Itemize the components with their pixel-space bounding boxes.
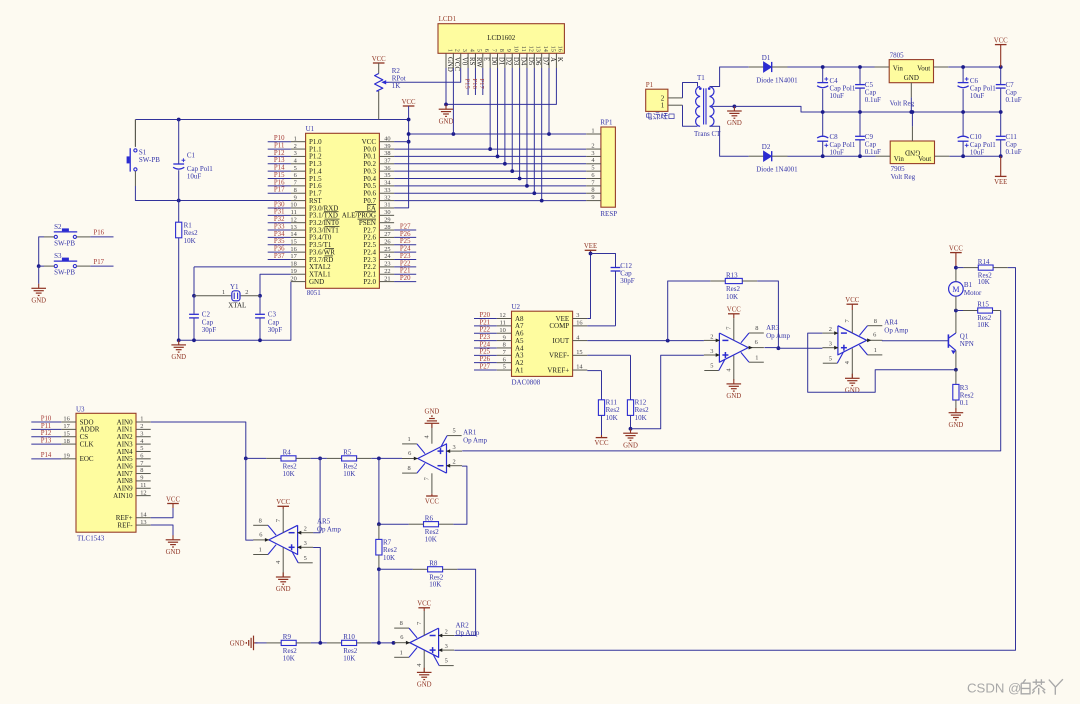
wire op-amp V- (851, 348, 853, 378)
svg-text:P16: P16 (274, 179, 285, 186)
svg-text:2: 2 (304, 526, 307, 533)
svg-text:30: 30 (384, 209, 390, 216)
capacitor C2 (189, 296, 216, 341)
svg-text:5: 5 (445, 658, 448, 665)
junction (777, 346, 781, 350)
svg-text:SW-PB: SW-PB (139, 156, 160, 164)
ground (431, 423, 433, 428)
capacitor C3 (255, 296, 282, 341)
svg-text:A1: A1 (515, 366, 524, 374)
svg-text:8: 8 (400, 620, 403, 627)
wire AR4 out to Q1 base (882, 340, 949, 342)
junction (177, 199, 181, 203)
op-amp AR1 (402, 428, 462, 481)
wire node P36 (268, 251, 291, 253)
junction (589, 252, 593, 256)
svg-text:6: 6 (294, 172, 297, 179)
wire AR2 +in (long wire already drawn) (0, 0, 1, 1)
svg-text:P16: P16 (471, 79, 478, 90)
svg-text:6: 6 (873, 332, 876, 339)
svg-text:2: 2 (829, 326, 832, 333)
svg-text:3: 3 (461, 49, 468, 52)
wire node P22 (474, 332, 497, 334)
wire node P15 (268, 178, 291, 180)
svg-text:P22: P22 (400, 260, 411, 267)
svg-text:8: 8 (755, 325, 758, 332)
svg-text:9: 9 (591, 194, 594, 201)
svg-text:10K: 10K (977, 321, 989, 329)
svg-text:1: 1 (222, 289, 225, 296)
junction (909, 110, 913, 114)
svg-text:10K: 10K (343, 470, 355, 478)
junction (821, 110, 825, 114)
IC U2 DAC0808 (497, 303, 588, 386)
svg-text:GND: GND (845, 388, 860, 395)
junction (258, 294, 262, 298)
wire LCD D4 to P0.4 (519, 68, 521, 179)
junction (452, 132, 456, 136)
junction (532, 191, 536, 195)
svg-text:37: 37 (384, 157, 391, 164)
svg-text:P12: P12 (41, 430, 52, 437)
svg-text:R4: R4 (283, 449, 292, 457)
svg-text:19: 19 (290, 268, 296, 275)
svg-text:D4: D4 (519, 57, 526, 66)
svg-text:27: 27 (384, 231, 391, 238)
svg-text:8: 8 (503, 342, 506, 349)
svg-text:30pF: 30pF (620, 277, 635, 285)
power VEE (1000, 156, 1002, 176)
wire node P26 (394, 236, 416, 238)
svg-text:VCC: VCC (276, 499, 290, 506)
junction (377, 522, 381, 526)
junction (999, 65, 1003, 69)
svg-text:5: 5 (710, 363, 713, 370)
svg-text:Op Amp: Op Amp (463, 436, 487, 444)
svg-text:P34: P34 (274, 231, 285, 238)
svg-text:GND: GND (166, 549, 181, 556)
wire LCD D3 to P0.3 (511, 68, 513, 171)
svg-text:12: 12 (499, 312, 505, 319)
junction (318, 641, 322, 645)
capacitor C9 (855, 112, 881, 156)
svg-text:8: 8 (259, 517, 262, 524)
wire vertical node chain (378, 458, 380, 524)
svg-text:Op Amp: Op Amp (884, 326, 908, 334)
wire P0.3 to RP1 (394, 170, 586, 172)
svg-text:VCC: VCC (453, 57, 460, 71)
wire node P35 (268, 244, 291, 246)
svg-text:2: 2 (710, 333, 713, 340)
svg-text:8: 8 (498, 49, 505, 52)
svg-text:XTAL: XTAL (228, 302, 246, 310)
wire AR5 out to node A (246, 458, 254, 540)
svg-text:39: 39 (384, 143, 390, 150)
svg-text:0.1uF: 0.1uF (1006, 96, 1022, 104)
wire node P11 (31, 428, 61, 430)
svg-text:1: 1 (755, 354, 758, 361)
svg-text:D2: D2 (505, 57, 512, 66)
svg-text:14: 14 (576, 364, 583, 371)
connector P1 (646, 81, 683, 111)
wire LCD D1 to P0.1 (497, 68, 499, 156)
svg-text:11: 11 (500, 320, 506, 327)
svg-text:GND: GND (726, 393, 741, 400)
svg-text:10K: 10K (283, 654, 295, 662)
wire node P24 (474, 347, 497, 349)
svg-text:10K: 10K (635, 414, 647, 422)
svg-text:P31: P31 (274, 209, 285, 216)
capacitor C4 (817, 67, 856, 112)
svg-text:0.1uF: 0.1uF (865, 148, 881, 156)
svg-text:13: 13 (535, 46, 542, 52)
svg-text:3: 3 (591, 150, 594, 157)
wire C12 to COMP (587, 325, 615, 327)
svg-text:32: 32 (384, 194, 390, 201)
wire node P11 (268, 148, 291, 150)
wire node P16 (268, 185, 291, 187)
wire (948, 66, 1001, 68)
svg-text:Trans CT: Trans CT (694, 130, 721, 138)
svg-text:13: 13 (290, 224, 296, 231)
wire node chain to R9/R10 row (378, 569, 380, 643)
svg-text:0.1: 0.1 (960, 399, 969, 407)
wire (371, 642, 394, 644)
wire node P22 (394, 266, 416, 268)
wire node P20 (394, 281, 416, 283)
svg-text:11: 11 (140, 482, 146, 489)
junction (858, 65, 862, 69)
svg-text:3: 3 (304, 540, 307, 547)
svg-text:GND: GND (623, 442, 638, 449)
svg-text:3: 3 (445, 643, 448, 650)
capacitor C10 (958, 112, 997, 156)
capacitor C5 (855, 67, 881, 112)
ground (423, 668, 425, 673)
svg-text:10: 10 (290, 202, 296, 209)
svg-text:EOC: EOC (80, 455, 94, 463)
svg-text:RS: RS (468, 57, 475, 66)
svg-text:Y1: Y1 (230, 283, 239, 291)
wire node P12 (31, 436, 61, 438)
svg-text:15: 15 (549, 46, 556, 52)
svg-text:12: 12 (290, 216, 296, 223)
wire LCD GND pin1 (445, 68, 447, 104)
wire P0.0 to RP1 (394, 148, 586, 150)
svg-text:GND: GND (309, 278, 324, 286)
svg-text:R10: R10 (343, 633, 355, 641)
ground (630, 429, 632, 434)
power VCC (728, 313, 740, 315)
wire S2 left (44, 236, 54, 238)
svg-text:R15: R15 (977, 301, 989, 309)
resistor R5 (311, 449, 372, 478)
svg-text:10K: 10K (283, 470, 295, 478)
junction (258, 338, 262, 342)
label P1 Chinese name (647, 113, 675, 120)
svg-text:24: 24 (384, 253, 391, 260)
wire node P13 (31, 443, 61, 445)
junction (629, 427, 633, 431)
svg-text:16: 16 (557, 46, 564, 52)
junction (392, 641, 396, 645)
svg-text:10uF: 10uF (970, 92, 985, 100)
junction (318, 457, 322, 461)
power VCC (373, 62, 385, 64)
capacitor C11 (996, 112, 1022, 156)
svg-text:R13: R13 (726, 271, 738, 279)
svg-text:0.1uF: 0.1uF (1006, 148, 1022, 156)
ground up at AR1 (431, 423, 433, 443)
svg-text:S3: S3 (54, 252, 62, 260)
svg-text:1: 1 (661, 102, 665, 110)
wire R8 to AR2 -in (454, 569, 475, 635)
ground at AR5 (282, 547, 284, 577)
svg-text:17: 17 (63, 423, 70, 430)
svg-text:P25: P25 (400, 238, 411, 245)
wire REF- to ground (151, 525, 173, 540)
op-amp AR4 (822, 318, 882, 365)
svg-text:AR2: AR2 (456, 621, 470, 629)
junction (525, 184, 529, 188)
svg-text:10K: 10K (343, 654, 355, 662)
switch S3 (54, 252, 77, 277)
diode D2 1N4001 (749, 143, 798, 173)
svg-text:1: 1 (874, 347, 877, 354)
svg-text:1: 1 (259, 547, 262, 554)
power VCC (403, 105, 415, 107)
svg-text:CSDN @: CSDN @ (967, 681, 1021, 696)
wire (255, 642, 267, 644)
wire node P32 (268, 222, 291, 224)
power VCC (418, 607, 430, 609)
wire node P21 (474, 325, 497, 327)
ground (955, 408, 957, 413)
resistor R12 (587, 355, 649, 429)
ground (851, 374, 853, 379)
svg-text:6: 6 (503, 356, 506, 363)
svg-text:8: 8 (140, 467, 143, 474)
svg-text:P16: P16 (94, 230, 105, 237)
IC U1 8051 (290, 125, 394, 297)
svg-text:10K: 10K (383, 554, 395, 562)
svg-text:SW-PB: SW-PB (54, 239, 75, 247)
svg-text:R9: R9 (283, 633, 292, 641)
svg-text:14: 14 (140, 511, 147, 518)
wire node P25 (394, 244, 416, 246)
svg-text:11: 11 (520, 46, 527, 52)
wire GND pin 20 net (179, 282, 291, 341)
wire AR3 out to AR4 +in (778, 347, 822, 349)
svg-text:5: 5 (294, 165, 297, 172)
svg-text:RP1: RP1 (600, 119, 613, 127)
capacitor C7 (996, 67, 1022, 112)
junction (999, 110, 1003, 114)
switch S1 (127, 120, 161, 172)
svg-text:6: 6 (140, 453, 143, 460)
resistor R8 (379, 560, 457, 589)
svg-text:34: 34 (384, 180, 391, 187)
svg-text:1: 1 (446, 49, 453, 52)
svg-text:P10: P10 (274, 135, 285, 142)
junction (444, 103, 448, 107)
junction (954, 266, 958, 270)
svg-text:3: 3 (710, 348, 713, 355)
svg-text:LCD1602: LCD1602 (487, 34, 516, 42)
svg-text:P20: P20 (480, 312, 491, 319)
svg-text:VCC: VCC (402, 99, 416, 106)
svg-text:40: 40 (384, 135, 390, 142)
svg-text:8: 8 (874, 318, 877, 325)
resistor R10 (327, 633, 371, 662)
svg-text:1: 1 (400, 649, 403, 656)
svg-text:26: 26 (384, 238, 390, 245)
svg-text:P23: P23 (400, 253, 411, 260)
svg-text:Vout: Vout (917, 65, 930, 73)
svg-text:R5: R5 (343, 449, 352, 457)
power VCC (167, 503, 179, 505)
capacitor C6 (958, 67, 997, 112)
wire AR1 -in to R6 (453, 466, 467, 524)
svg-text:P12: P12 (274, 150, 285, 157)
svg-text:GND: GND (727, 120, 742, 127)
svg-text:Res2: Res2 (184, 229, 199, 237)
op-amp AR2 (394, 620, 454, 667)
junction (192, 294, 196, 298)
svg-text:CLK: CLK (80, 440, 94, 448)
wire node P14 (31, 458, 61, 460)
svg-text:P13: P13 (274, 157, 285, 164)
junction (177, 338, 181, 342)
svg-text:2: 2 (140, 423, 143, 430)
svg-text:8: 8 (591, 187, 594, 194)
svg-text:30pF: 30pF (268, 326, 283, 334)
junction (407, 132, 411, 136)
junction (244, 457, 248, 461)
svg-text:GND: GND (171, 354, 186, 361)
junction (858, 110, 862, 114)
svg-text:9: 9 (505, 49, 512, 52)
svg-text:10: 10 (513, 46, 520, 52)
svg-text:DAC0808: DAC0808 (512, 378, 541, 386)
svg-text:AIN10: AIN10 (113, 492, 133, 500)
svg-text:5: 5 (591, 165, 594, 172)
resistor R7 (376, 524, 398, 569)
junction (961, 154, 965, 158)
wire 7805 gnd (910, 97, 912, 112)
wire S3 left to ground (44, 265, 54, 267)
power VEE (995, 175, 1007, 177)
svg-text:D0: D0 (490, 57, 497, 66)
svg-text:P17: P17 (478, 79, 485, 90)
svg-text:R6: R6 (425, 514, 434, 522)
svg-text:P35: P35 (274, 238, 285, 245)
svg-text:AR4: AR4 (884, 318, 898, 326)
wire P0.2 to RP1 (394, 163, 586, 165)
svg-text:5: 5 (140, 445, 143, 452)
svg-text:U3: U3 (76, 405, 85, 413)
wire LCD D2 to P0.2 (504, 68, 506, 164)
svg-text:Vin: Vin (893, 65, 904, 73)
svg-text:10K: 10K (425, 536, 437, 544)
wire P0.7 to RP1 (394, 200, 586, 202)
wire P0.5 to RP1 (394, 185, 586, 187)
svg-text:7: 7 (490, 49, 497, 52)
svg-text:TLC1543: TLC1543 (77, 535, 105, 543)
wire P0.6 to RP1 (394, 192, 586, 194)
wire pot wiper to LCD V0 (389, 68, 461, 82)
junction (540, 199, 544, 203)
svg-text:RW: RW (475, 57, 482, 68)
svg-text:P25: P25 (480, 349, 491, 356)
junction (821, 65, 825, 69)
resistor R14 (956, 258, 1008, 286)
wire node P16 (474, 68, 476, 95)
wire mid rail (734, 106, 1000, 112)
svg-text:10uF: 10uF (187, 173, 202, 181)
junction (666, 339, 670, 343)
ground (733, 106, 735, 111)
junction (858, 154, 862, 158)
svg-text:1: 1 (407, 436, 410, 443)
svg-text:M: M (952, 285, 959, 294)
svg-text:P1: P1 (646, 81, 654, 89)
crystal Y1 (194, 283, 260, 309)
svg-text:U1: U1 (306, 125, 315, 133)
svg-text:SW-PB: SW-PB (54, 269, 75, 277)
wire AR4 feedback from emitter (808, 333, 956, 392)
wire 7905 gnd (911, 112, 913, 126)
svg-text:D1: D1 (762, 54, 771, 62)
svg-text:22: 22 (384, 268, 390, 275)
svg-text:1: 1 (591, 127, 594, 134)
wire LCD D5 to P0.5 (526, 68, 528, 186)
svg-text:18: 18 (63, 438, 69, 445)
potentiometer R2 (375, 63, 406, 120)
svg-text:15: 15 (63, 430, 69, 437)
power VCC (426, 495, 438, 497)
switch S2 (54, 223, 77, 248)
svg-text:VCC: VCC (166, 496, 180, 503)
svg-text:10uF: 10uF (830, 148, 845, 156)
svg-text:30pF: 30pF (202, 326, 217, 334)
resistor R6 (379, 514, 453, 543)
wire S1 bottom to RST net (134, 171, 136, 186)
svg-text:14: 14 (290, 231, 297, 238)
ground (733, 379, 735, 384)
wire (683, 105, 698, 126)
svg-text:P26: P26 (480, 356, 491, 363)
wire node P12 (268, 155, 291, 157)
svg-text:VCC: VCC (727, 307, 741, 314)
svg-text:GND: GND (425, 409, 440, 416)
svg-text:19: 19 (63, 453, 69, 460)
wire VEE to U2 (587, 254, 590, 319)
svg-text:38: 38 (384, 150, 390, 157)
svg-text:REF-: REF- (117, 521, 133, 529)
svg-text:C1: C1 (187, 151, 196, 159)
motor B1 (949, 268, 982, 311)
svg-text:P17: P17 (274, 187, 285, 194)
wire AR3 out (764, 347, 778, 349)
wire LCD A pin15 to VCC (548, 68, 550, 134)
svg-text:RESP: RESP (600, 210, 617, 218)
wire node P20 (474, 318, 497, 320)
svg-text:D7: D7 (541, 57, 548, 66)
power VCC down (431, 473, 433, 493)
wire P1 to transformer (683, 83, 698, 98)
svg-text:15: 15 (290, 238, 296, 245)
